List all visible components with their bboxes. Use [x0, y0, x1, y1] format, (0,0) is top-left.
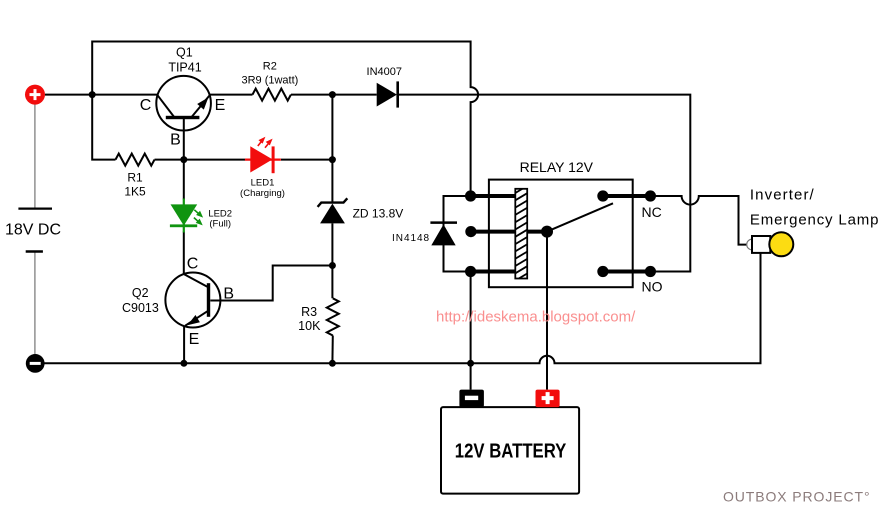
svg-text:R2: R2	[263, 60, 277, 72]
svg-text:E: E	[215, 97, 226, 114]
svg-text:NC: NC	[642, 204, 662, 220]
svg-text:R3: R3	[301, 305, 317, 319]
svg-text:OUTBOX PROJECT°: OUTBOX PROJECT°	[723, 489, 870, 505]
svg-text:http://ideskema.blogspot.com/: http://ideskema.blogspot.com/	[436, 309, 636, 326]
svg-text:E: E	[189, 331, 200, 348]
svg-text:10K: 10K	[298, 319, 321, 333]
svg-text:12V BATTERY: 12V BATTERY	[455, 441, 567, 463]
svg-text:TIP41: TIP41	[168, 60, 201, 74]
svg-text:(Charging): (Charging)	[240, 188, 285, 199]
svg-text:C: C	[140, 97, 152, 114]
svg-text:R1: R1	[127, 171, 143, 185]
svg-text:RELAY 12V: RELAY 12V	[520, 159, 594, 175]
svg-text:C9013: C9013	[122, 301, 159, 315]
svg-text:IN4148: IN4148	[392, 233, 430, 244]
svg-text:LED1: LED1	[251, 177, 275, 188]
svg-text:ZD 13.8V: ZD 13.8V	[353, 207, 404, 221]
svg-text:Emergency Lamp: Emergency Lamp	[750, 211, 879, 228]
svg-text:IN4007: IN4007	[367, 66, 402, 78]
svg-text:1K5: 1K5	[124, 185, 146, 199]
svg-text:B: B	[170, 132, 181, 149]
svg-text:C: C	[187, 255, 199, 272]
svg-text:Q2: Q2	[132, 286, 149, 300]
svg-text:Inverter/: Inverter/	[750, 186, 815, 203]
svg-text:Q1: Q1	[176, 46, 193, 60]
svg-text:3R9 (1watt): 3R9 (1watt)	[241, 74, 298, 86]
svg-text:18V DC: 18V DC	[5, 222, 61, 239]
svg-text:NO: NO	[642, 278, 663, 294]
svg-text:(Full): (Full)	[209, 218, 231, 229]
svg-text:B: B	[223, 285, 234, 302]
